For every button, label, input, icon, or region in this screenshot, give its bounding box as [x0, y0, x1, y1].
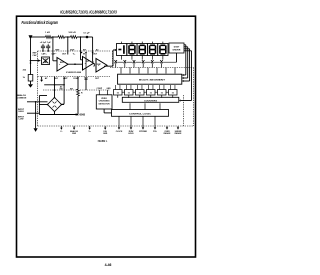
svg-text:POL: POL	[153, 131, 158, 133]
svg-text:DIGIT: DIGIT	[174, 46, 180, 48]
svg-text:OUT: OUT	[62, 53, 67, 55]
svg-text:ICL8052/ICL71C03, ICL8068/ICL7: ICL8052/ICL71C03, ICL8068/ICL71C03	[60, 10, 117, 15]
svg-text:ICL-8068: ICL-8068	[75, 115, 86, 117]
svg-text:CAP−: CAP−	[51, 52, 57, 55]
svg-text:ICL8052/ICL8068: ICL8052/ICL8068	[66, 72, 82, 74]
svg-text:RANGE: RANGE	[164, 132, 171, 135]
svg-text:AZ: AZ	[45, 77, 48, 80]
svg-text:COMP: COMP	[97, 88, 103, 90]
svg-text:INT: INT	[64, 78, 68, 80]
svg-text:RANGE: RANGE	[175, 132, 182, 135]
svg-text:10: 10	[172, 92, 174, 94]
svg-text:V−: V−	[60, 131, 62, 133]
svg-text:+: +	[59, 64, 61, 66]
svg-text:COMP: COMP	[73, 78, 80, 80]
svg-text:ZERO: ZERO	[101, 98, 107, 100]
svg-text:COUNTERS: COUNTERS	[144, 101, 158, 103]
svg-text:10: 10	[150, 92, 152, 94]
svg-text:+0.1µF: +0.1µF	[40, 42, 47, 44]
svg-text:GND: GND	[72, 133, 77, 135]
svg-text:COMP: COMP	[96, 64, 102, 66]
svg-text:CONTROL LOGIC: CONTROL LOGIC	[129, 113, 152, 115]
svg-text:1 kΩ: 1 kΩ	[45, 32, 50, 34]
svg-text:CAP+: CAP+	[41, 52, 47, 55]
svg-text:LOW: LOW	[19, 119, 24, 121]
svg-text:OUT: OUT	[95, 78, 100, 80]
svg-text:V+: V+	[88, 131, 90, 133]
svg-text:DRIVER: DRIVER	[173, 49, 181, 51]
svg-text:10: 10	[128, 92, 130, 94]
svg-text:REF: REF	[43, 62, 48, 64]
svg-text:BCD/7-SEGMENT: BCD/7-SEGMENT	[139, 79, 166, 81]
svg-text:COMMON: COMMON	[17, 97, 27, 99]
svg-text:0.1 µF: 0.1 µF	[83, 32, 90, 34]
svg-text:HIGH: HIGH	[18, 111, 24, 113]
svg-text:Functional Block Diagram: Functional Block Diagram	[22, 20, 59, 26]
svg-text:GND: GND	[106, 88, 111, 90]
svg-text:CLOCK: CLOCK	[116, 131, 123, 133]
svg-text:20k: 20k	[23, 70, 27, 72]
svg-text:SW: SW	[60, 89, 63, 91]
svg-text:R: R	[81, 92, 83, 94]
svg-text:GND: GND	[103, 133, 108, 135]
svg-text:10: 10	[139, 92, 141, 94]
svg-text:V+: V+	[73, 53, 76, 55]
svg-text:10: 10	[117, 92, 119, 94]
svg-text:HOLD: HOLD	[128, 133, 134, 135]
svg-text:FIGURE 1.: FIGURE 1.	[98, 139, 108, 143]
svg-text:1k: 1k	[23, 77, 26, 79]
svg-text:OUT: OUT	[93, 53, 98, 55]
svg-text:CAP: CAP	[33, 54, 38, 57]
svg-text:1µF: 1µF	[47, 42, 51, 44]
svg-text:DETECTOR: DETECTOR	[99, 103, 110, 105]
svg-text:STROBE: STROBE	[139, 131, 147, 133]
svg-text:10: 10	[161, 92, 163, 94]
svg-text:BUF: BUF	[60, 62, 65, 64]
svg-text:IN: IN	[83, 53, 86, 55]
svg-text:4-46: 4-46	[105, 263, 112, 267]
svg-text:100 kΩ: 100 kΩ	[68, 32, 75, 34]
svg-text:AZ: AZ	[96, 48, 99, 51]
svg-text:CROSSING: CROSSING	[99, 101, 110, 103]
